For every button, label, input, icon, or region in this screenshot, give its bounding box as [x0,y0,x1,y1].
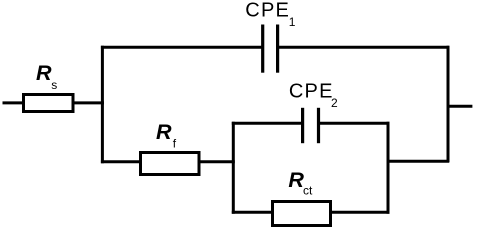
wire Rs to node A [73,101,105,104]
wire Rct branch left segment [232,211,273,214]
svg-text:1: 1 [289,15,296,29]
svg-text:R: R [36,61,52,85]
capacitor CPE1 right plate [276,25,279,73]
svg-text:2: 2 [331,96,338,110]
wire left vertical of inner loop [232,122,235,214]
wire CPE2 branch right segment [319,122,390,125]
svg-text:CPE: CPE [245,0,290,22]
wire output right [447,105,473,108]
resistor R1 Rs [24,95,74,112]
svg-text:R: R [288,168,304,192]
svg-text:s: s [51,78,57,92]
wire Rct branch right segment [330,211,390,214]
capacitor CPE1 left plate [261,25,264,73]
resistor R2 Rf [141,153,200,175]
svg-text:R: R [156,120,172,144]
svg-text:f: f [173,136,177,150]
svg-text:ct: ct [303,184,313,198]
resistor R3 Rct [273,202,331,226]
wire Rf to inner loop node B [199,160,235,163]
wire input left [3,101,25,104]
wire right vertical of main loop [447,46,450,163]
wire bottom branch from node A [101,160,141,163]
wire left vertical of main loop [101,46,104,164]
wire top branch right segment [278,46,450,49]
wire right vertical of inner loop [387,122,390,214]
capacitor CPE2 right plate [317,108,320,143]
capacitor CPE2 left plate [301,108,304,143]
wire inner loop to right vertical node C [387,160,450,163]
wire CPE2 branch left segment [232,122,303,125]
svg-text:CPE: CPE [289,80,334,102]
wire top branch left segment [101,46,263,49]
